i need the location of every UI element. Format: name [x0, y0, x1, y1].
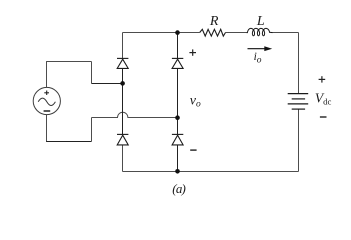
wire top rail between resistor and inductor — [226, 32, 247, 34]
AC source plus sign — [44, 91, 49, 96]
wire step-down vertical at x=92 — [91, 62, 93, 84]
wire right side down to battery top — [298, 33, 300, 94]
svg-text:io: io — [254, 51, 262, 65]
wire right bridge leg top segment — [177, 33, 179, 59]
diode D4 lower-right — [172, 134, 183, 145]
current io arrow — [248, 46, 273, 51]
label vo plus — [189, 49, 196, 55]
svg-text:R: R — [209, 14, 219, 29]
label Vdc plus — [319, 76, 326, 82]
junction node at right leg mid — [175, 115, 180, 120]
wire bottom rail — [123, 171, 299, 173]
svg-text:L: L — [256, 14, 265, 29]
junction node at left leg mid — [120, 81, 125, 86]
svg-text:vo: vo — [190, 93, 201, 109]
diode D2 lower-left — [117, 134, 128, 145]
svg-text:Vdc: Vdc — [315, 91, 332, 107]
diode D1 upper-left — [117, 58, 128, 68]
wire left bridge leg top segment — [122, 33, 124, 59]
AC source V1 circle — [33, 87, 60, 114]
wire mid-left horizontal into left bridge leg — [92, 83, 123, 85]
junction node bottom rail — [175, 169, 180, 174]
resistor R zigzag — [200, 29, 226, 36]
wire left bridge leg between upper diode and node — [122, 69, 124, 135]
wire right bridge leg middle segment — [177, 69, 179, 135]
wire from top corner down to AC source top — [46, 62, 48, 88]
label Vdc minus — [320, 116, 327, 118]
inductor L coil — [247, 28, 273, 35]
junction node top rail — [175, 30, 180, 35]
wire top-left horizontal from source to step — [46, 61, 91, 63]
wire with crossover hop into right bridge leg node — [92, 112, 178, 117]
AC source minus sign — [44, 110, 51, 112]
wire left bridge leg bottom segment — [122, 145, 124, 171]
wire from AC source bottom down to corner — [46, 115, 48, 142]
wire bottom-left horizontal to step-up — [46, 141, 91, 143]
AC source sine wave — [38, 98, 55, 105]
svg-text:(a): (a) — [172, 181, 185, 196]
wire right bridge leg bottom segment — [177, 145, 179, 171]
label vo minus — [190, 149, 196, 151]
battery Vdc plates — [288, 94, 309, 110]
diode D3 upper-right — [172, 58, 183, 68]
wire step-up vertical at x=92 — [91, 118, 93, 142]
wire top rail from inductor to right corner — [271, 32, 298, 34]
wire top rail from bridge to resistor — [123, 32, 200, 34]
wire battery bottom to bottom rail — [298, 109, 300, 171]
